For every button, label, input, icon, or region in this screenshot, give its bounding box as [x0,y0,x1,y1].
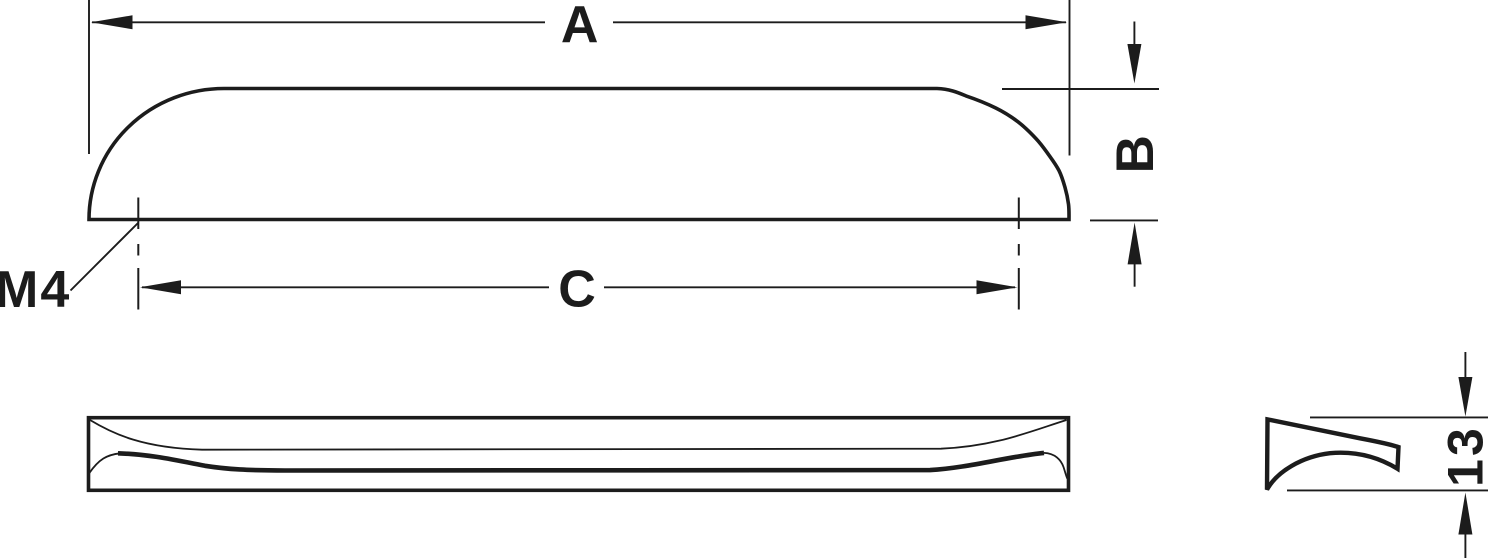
dimension B bottom arrow shaft [1134,262,1136,287]
handle end profile outline [1267,419,1399,489]
dimension A line right segment [613,21,1066,23]
dimension C left arrowhead [140,280,181,294]
svg-text:13: 13 [1438,425,1488,487]
dimension 13 upper reference line [1310,416,1488,418]
M4 leader line [71,223,139,291]
dimension A line left segment [92,21,545,23]
svg-text:A: A [561,0,599,54]
dimension B bottom arrowhead [1128,223,1142,265]
svg-text:C: C [558,261,596,319]
plan view lower edge curve thick section [118,453,1044,471]
dimension C right arrowhead [977,280,1018,294]
dimension 13 top arrowhead [1458,377,1472,417]
svg-text:M4: M4 [0,261,71,319]
dimension 13 top arrow shaft [1464,352,1466,382]
dimension 13 bottom arrowhead [1458,493,1472,535]
left hole center line [137,198,139,310]
dimension 13 bottom arrow shaft [1464,532,1466,558]
dimension A right extension line [1069,0,1071,156]
plan view upper edge curve [90,420,1067,450]
dimension A right arrowhead [1026,15,1068,29]
right hole center line [1018,198,1020,310]
dimension A left extension line [88,0,90,154]
plan view lower edge curve left hook [89,453,120,473]
dimension A left arrowhead [91,15,133,29]
handle plan view outline [89,418,1069,491]
dimension B top arrow shaft [1133,22,1135,49]
dimension C line right segment [604,286,1015,288]
dimension 13 lower reference line [1287,489,1488,491]
dimension B top arrowhead [1127,44,1141,84]
plan view lower edge curve right hook [1044,453,1067,479]
dimension C line left segment [142,286,549,288]
dimension B lower reference line [1090,219,1158,221]
handle front view outline [89,89,1069,220]
dimension B upper reference line [1002,88,1159,90]
svg-text:B: B [1106,135,1165,173]
